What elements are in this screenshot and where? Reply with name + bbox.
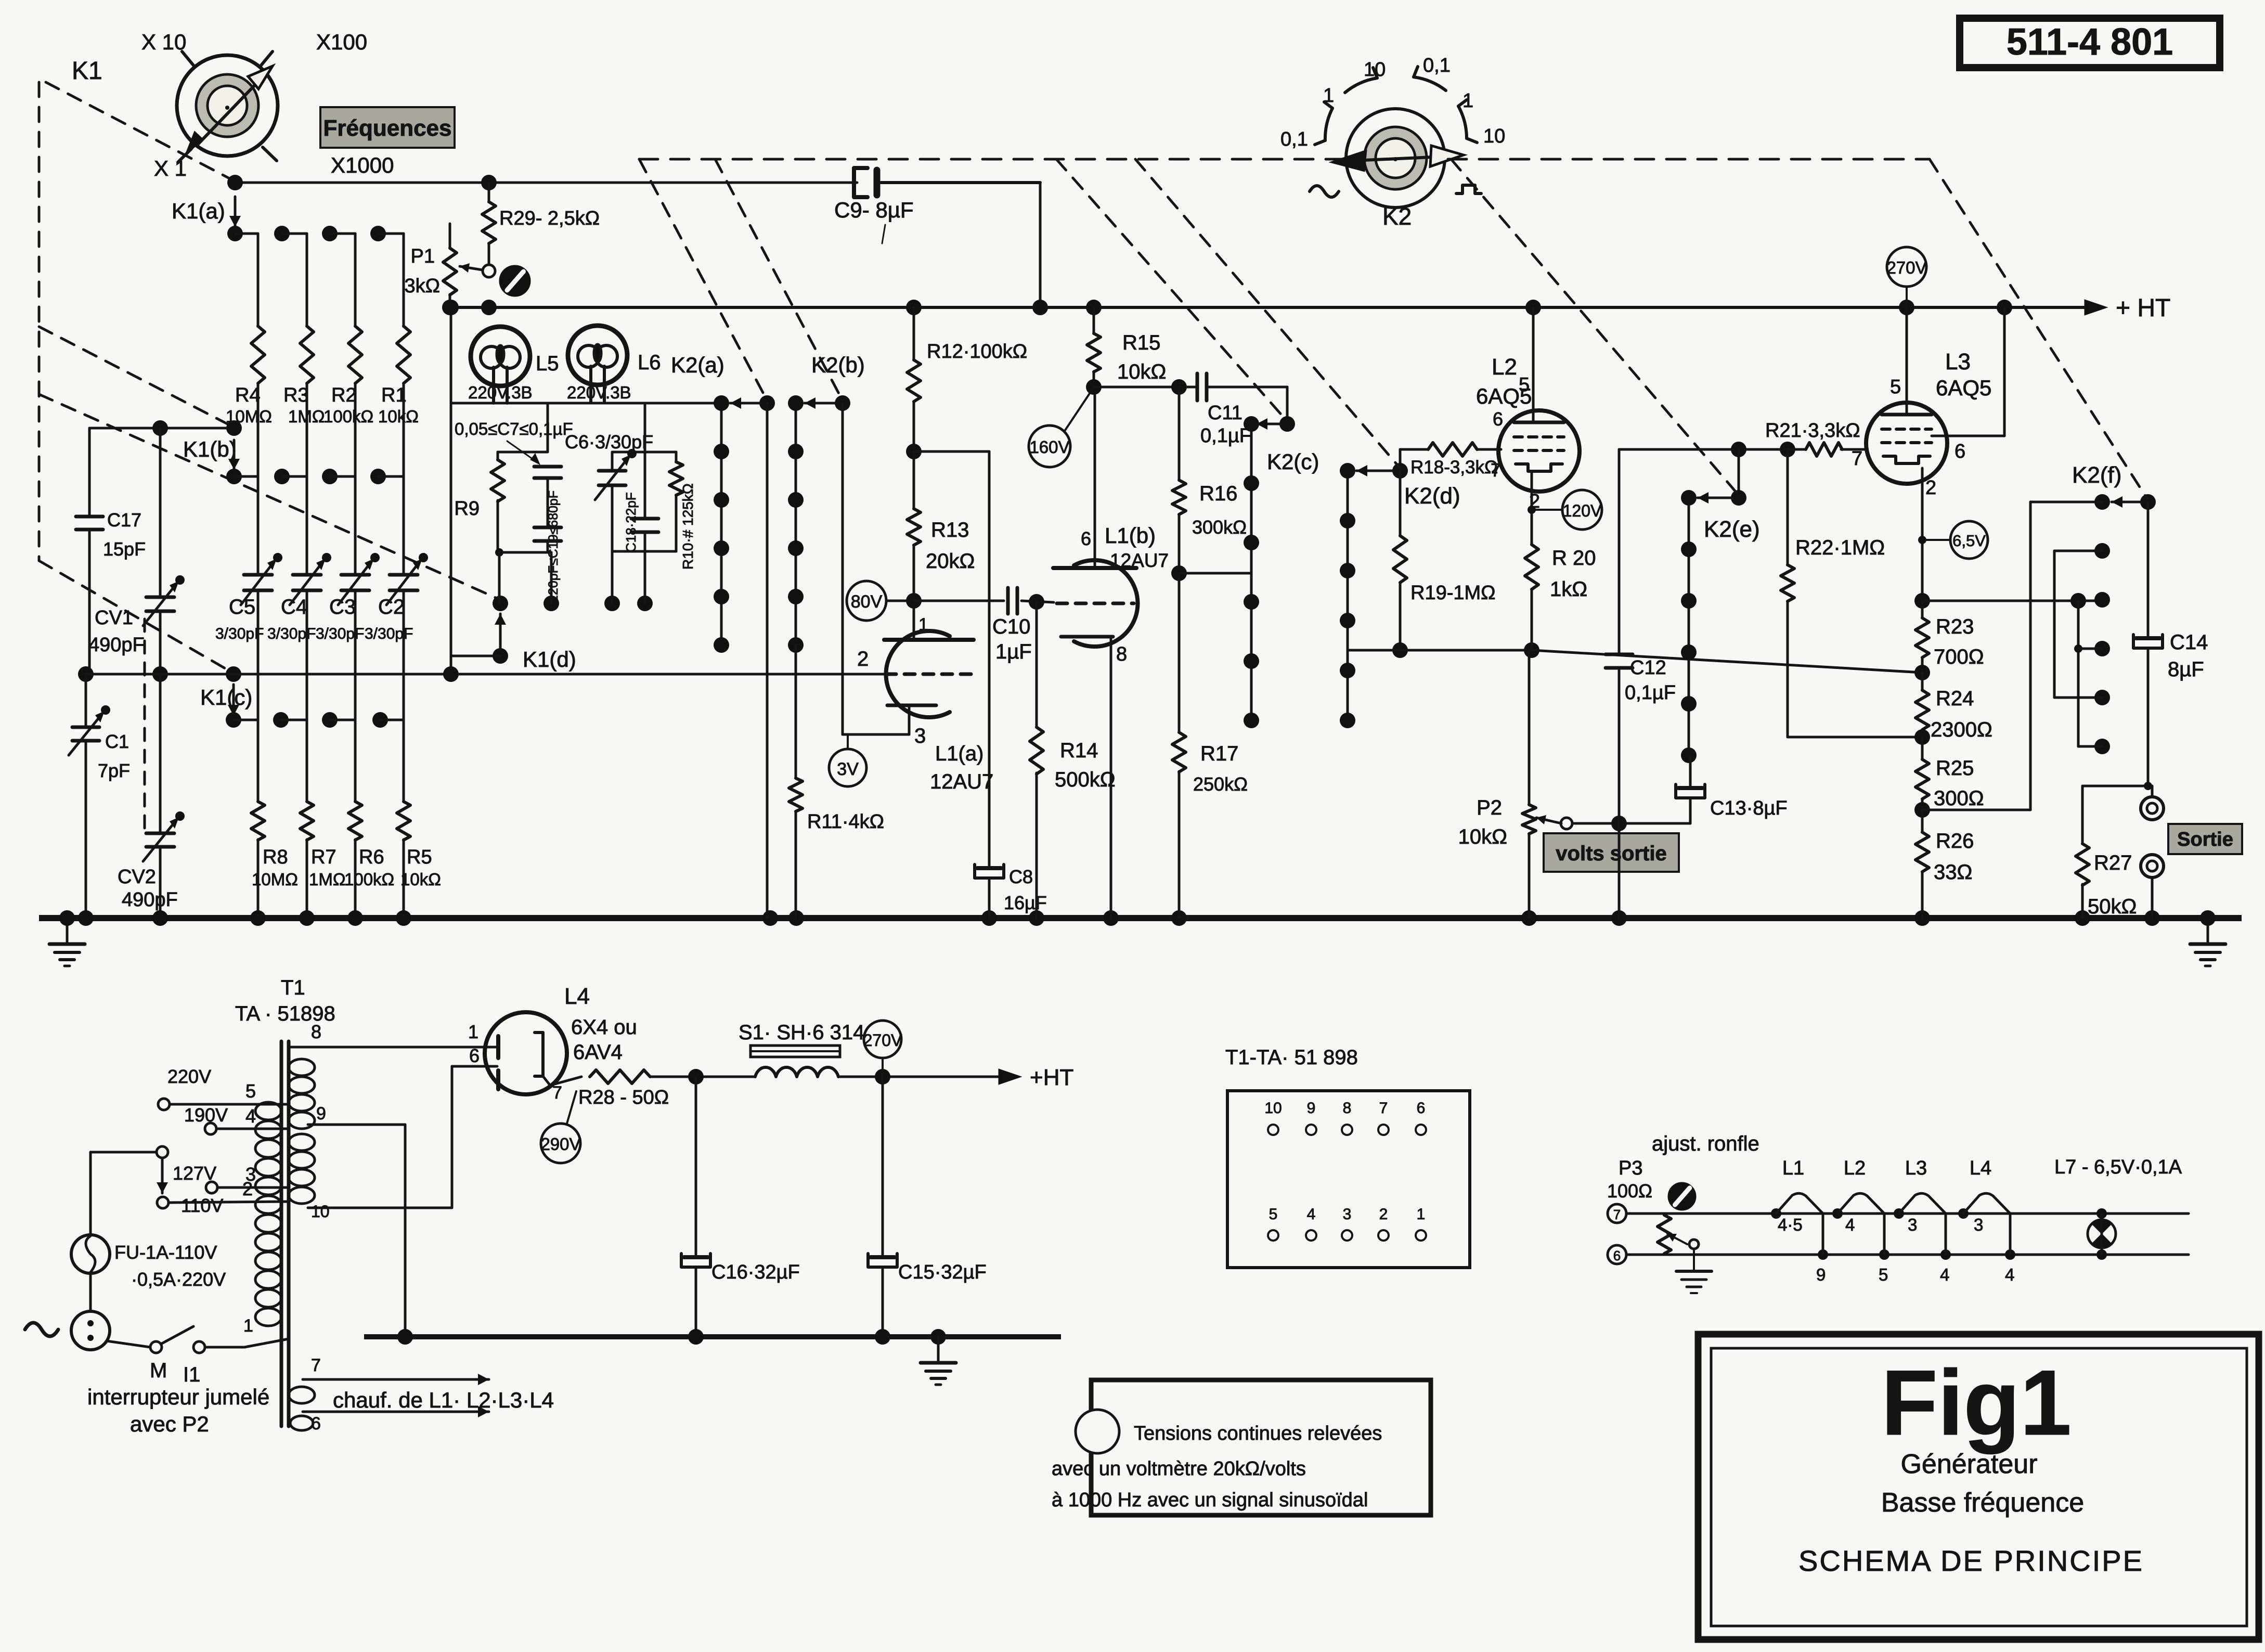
dashed gang to K2(c) [1056,159,1287,421]
svg-text:K2(b): K2(b) [811,353,865,377]
resistor R13 20k [906,444,975,609]
transformer secondary winding [289,1059,315,1204]
svg-text:100Ω: 100Ω [1607,1180,1652,1202]
ground symbol right [2190,910,2225,966]
svg-text:R24: R24 [1936,687,1974,710]
resistor R19 1M [1392,471,1496,658]
wire K1(a) to C9 [235,182,857,184]
svg-text:7: 7 [1379,1100,1388,1117]
svg-text:12AU7: 12AU7 [1110,550,1169,571]
ground symbol P3 [1676,1271,1712,1293]
svg-text:7: 7 [311,1356,321,1375]
wire wiper to output jack [2082,782,2152,790]
svg-text:220V: 220V [167,1066,211,1087]
trimmer capacitor C2 3/30pF [365,476,428,720]
terminal 127V pin 3 [173,1163,289,1193]
resistor R25 300 [1914,737,1984,818]
svg-text:10: 10 [1364,59,1386,81]
svg-text:L2: L2 [1844,1157,1866,1179]
svg-text:L5: L5 [536,352,559,375]
svg-text:L3: L3 [1945,349,1971,375]
svg-text:K2(f): K2(f) [2072,462,2121,488]
wiper K2(b) [805,395,850,734]
svg-text:R18-3,3kΩ: R18-3,3kΩ [1410,457,1498,477]
svg-text:Fig1: Fig1 [1881,1351,2072,1454]
label K1 [72,57,102,85]
trimmer capacitor C4 3/30pF [267,476,331,720]
svg-text:K1(b): K1(b) [183,437,237,461]
svg-text:0,1µF: 0,1µF [1200,425,1251,447]
wiper arrow K1(c) [228,685,239,716]
wire oscillator feedback line [86,673,884,676]
dashed gang to K2(d) [1135,159,1400,468]
svg-text:3: 3 [1343,1206,1352,1223]
svg-text:1: 1 [468,1021,478,1042]
resistor R1 10kΩ [378,234,419,476]
svg-text:2300Ω: 2300Ω [1931,718,1992,741]
svg-text:220pF≤C19≤680pF: 220pF≤C19≤680pF [546,491,561,602]
contact column K2(e) [1681,490,1697,763]
svg-text:K2(c): K2(c) [1267,449,1319,474]
svg-text:290V: 290V [540,1134,580,1154]
svg-text:+HT: +HT [1030,1065,1073,1090]
resistor R20 1k [1525,545,1596,650]
resistor R17 250k [1172,573,1248,918]
svg-text:C4: C4 [281,596,307,618]
transformer T1 core [281,1041,289,1426]
svg-text:2: 2 [857,648,869,670]
svg-text:1MΩ: 1MΩ [288,407,325,426]
rectifier tube L4 6X4/6AV4 [485,984,637,1103]
contact column K2(d) [1340,463,1355,728]
svg-text:R16: R16 [1199,482,1237,505]
svg-text:250kΩ: 250kΩ [1193,773,1248,795]
junction on ground bus x=308 [152,910,168,926]
resistor R14 500k [1029,594,1116,918]
svg-text:R25: R25 [1936,757,1974,780]
dashed gang link CV1-CV2 [144,619,146,832]
svg-text:6AQ5: 6AQ5 [1476,384,1532,408]
output jack bottom [2141,855,2164,918]
wire cathode to K2(f) contact [1914,593,2102,609]
wire C9 down to +HT rail [1039,183,1042,307]
Frequences panel label [320,107,455,148]
wire HV winding top to L4 pin1 [289,1021,486,1047]
label X100 [316,30,367,54]
svg-text:R12·100kΩ: R12·100kΩ [927,341,1027,363]
fuse FU 1A/0,5A [71,1235,226,1290]
output jack top [2141,786,2164,820]
voltage 270V (psu) [863,1021,902,1077]
svg-text:P1: P1 [411,246,435,267]
wiper K2(e) [1698,449,1760,542]
svg-text:220V.3B: 220V.3B [468,383,533,402]
svg-text:R23: R23 [1936,615,1974,638]
contact row K1(b) [226,469,404,484]
wire mains loop [90,1152,157,1235]
junction on ground bus x=4138 [2144,910,2160,926]
svg-text:K1(d): K1(d) [523,647,576,672]
resistor R15 10k [1086,300,1166,395]
svg-text:9: 9 [1307,1100,1316,1117]
svg-text:1: 1 [1323,85,1334,107]
node K1(b) [183,420,242,461]
wiper K1(d) [451,614,576,672]
svg-text:20kΩ: 20kΩ [926,550,975,573]
svg-text:6: 6 [1955,441,1965,462]
svg-text:10kΩ: 10kΩ [400,870,441,889]
+HT arrow (power supply) [999,1065,1073,1090]
svg-text:R10·# 125kΩ: R10·# 125kΩ [680,483,696,570]
transformer primary winding [255,1102,281,1326]
svg-text:avec un voltmètre 20kΩ/volts: avec un voltmètre 20kΩ/volts [1052,1458,1306,1480]
svg-text:80V: 80V [851,592,883,612]
label X1000 [331,153,394,177]
terminal board T1-TA-51898 [1227,1091,1470,1268]
svg-text:8µF: 8µF [2168,658,2204,681]
triode L1(a) 12AU7 [857,601,993,793]
capacitor C9 [834,168,1040,243]
svg-text:270V: 270V [863,1031,902,1050]
svg-text:C2: C2 [378,596,405,618]
contact column K2(b) [788,353,865,653]
svg-text:15pF: 15pF [103,538,146,560]
wiper K2(f) [2112,494,2156,510]
svg-text:C11: C11 [1208,402,1242,424]
svg-text:C14: C14 [2170,631,2208,654]
junction on ground bus x=2267 [1171,910,1187,926]
terminal 220V pin 5 [158,1066,289,1110]
heater winding lead 6 [290,1406,489,1434]
svg-text:L1: L1 [1782,1157,1804,1179]
svg-text:2: 2 [1925,477,1936,499]
svg-text:R26: R26 [1936,830,1974,853]
node K1(a) [172,175,243,223]
capacitor C16 32uF [681,1069,800,1337]
mains selector arrow [157,1146,168,1193]
svg-text:à 1000 Hz avec un signal sinu: à 1000 Hz avec un signal sinusoïdal [1052,1489,1368,1511]
wire R16 bottom to K2(c) [1179,572,1251,575]
svg-text:490pF: 490pF [122,889,178,911]
resistor R16 300k [1171,379,1247,581]
label pin 1 [243,1316,253,1336]
svg-text:9: 9 [1816,1265,1826,1284]
volts sortie panel label [1544,833,1679,872]
junction on ground bus x=1531 [788,910,804,926]
resistor R11 4k [789,645,884,918]
svg-text:8: 8 [311,1021,321,1042]
svg-text:I1: I1 [183,1363,200,1386]
svg-text:K2(d): K2(d) [1404,483,1460,509]
title box 511-4 801 [1960,18,2220,68]
wire junction row to R23 node [1532,650,1922,673]
svg-text:P2: P2 [1477,796,1502,819]
junction on ground bus x=776 [396,910,411,926]
svg-text:X 10: X 10 [141,30,186,54]
svg-text:4: 4 [1307,1206,1316,1223]
svg-text:L1(b): L1(b) [1105,523,1156,548]
wire HV center tap 9 [308,1104,405,1337]
label ajust ronfle [1652,1132,1759,1155]
pentode L3 6AQ5 [1852,307,1991,499]
svg-text:5: 5 [1269,1206,1278,1223]
svg-text:L2: L2 [1492,354,1517,380]
resistor R28 50 [549,1070,696,1108]
svg-text:6: 6 [1081,528,1091,549]
svg-text:7: 7 [1852,448,1862,470]
svg-text:R2: R2 [331,384,357,406]
svg-text:5: 5 [245,1080,256,1102]
wire attenuator tap 3 [2074,601,2102,746]
contact column K2(c) [1244,416,1259,728]
label T1 [235,976,335,1025]
svg-text:3: 3 [1908,1215,1917,1234]
label K2 scale 0,1 left [1280,128,1308,150]
trimmer capacitor C6 3/30pF [565,431,653,551]
capacitor C1 7pF [69,666,130,918]
svg-text:Générateur: Générateur [1900,1449,2037,1479]
svg-text:C10: C10 [992,615,1030,638]
svg-text:8: 8 [1343,1100,1352,1117]
wire lamp cathode rail [451,402,721,405]
wire attenuator tap 1 [1922,502,2102,810]
svg-text:4: 4 [245,1105,256,1127]
wire cathode junction row [1348,642,1539,658]
svg-text:10kΩ: 10kΩ [1458,825,1507,848]
svg-text:7pF: 7pF [98,760,130,781]
svg-text:4: 4 [2005,1265,2014,1284]
voltage 160V [1029,391,1091,467]
resistor R3 1MΩ [283,234,325,476]
capacitor C19 (220-680pF) [534,491,561,602]
square wave symbol [1456,185,1481,193]
svg-text:chauf. de L1· L2·L3·L4: chauf. de L1· L2·L3·L4 [333,1388,554,1412]
svg-text:C5: C5 [229,596,255,618]
svg-text:7: 7 [552,1083,562,1103]
svg-text:C8: C8 [1009,866,1033,887]
svg-text:511-4 801: 511-4 801 [2007,21,2173,63]
svg-text:1MΩ: 1MΩ [309,870,346,889]
resistor R4 10MΩ [226,234,272,476]
svg-text:300Ω: 300Ω [1934,787,1984,810]
triode L1(b) 12AU7 [1053,385,1169,918]
heater winding lead 7 [303,1356,489,1385]
heater hump L3 [1894,1157,1951,1284]
potentiometer P3 [1658,1215,1699,1270]
resistor R8 10MΩ [251,720,298,918]
svg-text:K1(c): K1(c) [200,685,252,709]
trimmer capacitor C5 3/30pF [215,476,282,720]
svg-text:C13·8µF: C13·8µF [1710,797,1788,819]
wire attenuator tap 2 [2054,551,2102,698]
wire +HT rail [450,306,2090,309]
dashed gang line to K1(c) [39,561,231,672]
wire R12 bottom to C8 column [914,450,989,453]
svg-text:T1-TA· 51 898: T1-TA· 51 898 [1225,1046,1358,1069]
heater hump L4 [1958,1157,2015,1284]
label X 1 [154,156,187,180]
svg-text:6AV4: 6AV4 [573,1041,623,1064]
junction on +HT rail x=3666 [1899,300,1914,315]
svg-text:X100: X100 [316,30,367,54]
transformer heater winding [289,1387,315,1403]
svg-text:CV1: CV1 [95,607,133,629]
svg-text:volts sortie: volts sortie [1556,842,1666,865]
voltage 120V [1528,490,1602,530]
junction on ground bus x=2136 [1103,910,1119,926]
screwdriver adjust mark [499,265,530,296]
wiper K2(c) [1257,387,1319,474]
svg-text:1: 1 [1417,1206,1426,1223]
capacitor C7 (0,05-0,1uF) [455,419,573,527]
svg-text:3/30pF: 3/30pF [365,625,413,642]
label P3 [1607,1157,1652,1202]
contact row K1(c) [226,712,404,728]
svg-text:R15: R15 [1122,331,1160,354]
svg-text:6: 6 [1493,408,1503,430]
resistor R2 100kΩ [323,234,373,476]
svg-text:R9: R9 [454,498,480,520]
terminal 190V pin 4 [184,1104,289,1134]
svg-text:6,5V: 6,5V [1952,532,1986,550]
variable capacitor CV2 490pF [118,666,185,918]
svg-text:33Ω: 33Ω [1934,861,1972,884]
lamp L6 220V.3B [567,326,661,402]
svg-text:L4: L4 [564,984,590,1009]
voltage 290V [540,1091,580,1163]
svg-text:K1: K1 [72,57,102,85]
dashed gang line K2 horizontal left [639,158,1343,161]
svg-text:10: 10 [1264,1100,1282,1117]
label chauf de L1 L2 L3 L4 [333,1388,554,1412]
svg-text:R13: R13 [931,519,969,541]
capacitor C15 32uF [868,1077,987,1337]
svg-text:R22·1MΩ: R22·1MΩ [1795,536,1885,559]
contact row K1(a) [227,226,404,241]
dashed gang line to K1(b) [39,327,232,427]
svg-text:8: 8 [1116,643,1127,665]
dashed gang to K2(e) [1451,159,1739,495]
label K2 scale 1 left [1323,85,1334,107]
svg-text:CV2: CV2 [118,866,156,888]
label L7 6,5V 0,1A [2054,1156,2182,1178]
svg-text:R1: R1 [381,384,407,406]
svg-text:5: 5 [1890,376,1901,398]
dashed gang to K2(a) [639,159,767,401]
wire C6 network bottom rail [612,550,676,553]
pilot lamp L7 [2088,1208,2116,1260]
junction on ground bus x=1993 [1029,910,1044,926]
selector switch K1 (Frequences range knob) [177,51,278,162]
svg-text:S1· SH·6 314: S1· SH·6 314 [739,1021,864,1044]
resistor R12 100k [906,300,1027,451]
svg-text:C6·3/30pF: C6·3/30pF [565,431,653,453]
svg-text:160V: 160V [1029,437,1069,457]
resistor R21 3,3k [1765,420,1867,456]
svg-text:T1: T1 [281,976,305,999]
junction on ground bus x=590 [299,910,315,926]
capacitor C8 16uF [975,451,1047,918]
svg-text:C18·22pF: C18·22pF [623,492,639,552]
resistor R22 1M [1781,449,1885,737]
svg-text:50kΩ: 50kΩ [2088,895,2137,918]
resistor R26 33 [1915,810,1974,918]
variable capacitor CV1 490pF [88,428,185,674]
wire C11 line [1094,386,1287,389]
svg-text:R27: R27 [2094,851,2132,874]
dashed gang to K2(b) [715,159,843,401]
svg-text:7: 7 [1613,1207,1621,1222]
svg-text:X1000: X1000 [331,153,394,177]
terminal 110V pin 2 [157,1178,289,1216]
wiper K2(a) [730,395,775,918]
junction on ground bus x=1481 [762,910,778,926]
junction on ground bus x=3696 [1914,910,1930,926]
capacitor C12 0,1uF [1606,449,1676,918]
resistor R23 700 [1914,601,1984,680]
label X 10 [141,30,186,54]
svg-text:R7: R7 [311,846,336,868]
svg-text:R21·3,3kΩ: R21·3,3kΩ [1765,420,1860,442]
svg-text:190V: 190V [184,1104,228,1126]
svg-text:L4: L4 [1970,1157,1991,1179]
wire lamp-box left side [443,300,459,682]
node K1(c) [200,666,252,709]
svg-text:C15·32µF: C15·32µF [898,1261,987,1283]
svg-text:10: 10 [1483,125,1505,147]
svg-text:300kΩ: 300kΩ [1192,517,1247,538]
svg-text:R8: R8 [263,846,288,868]
resistor R5 10kΩ [397,720,441,918]
junction on +HT rail x=3854 [1997,300,2012,315]
filter choke S1 SH-6314 [696,1021,864,1077]
svg-text:3/30pF: 3/30pF [316,625,364,642]
svg-text:R17: R17 [1200,742,1238,765]
wiper arrow K1(b) [228,440,240,470]
contact column K2(a) [671,353,729,653]
svg-text:R3: R3 [283,384,309,406]
svg-text:1µF: 1µF [995,640,1032,663]
svg-text:6X4 ou: 6X4 ou [571,1016,637,1039]
capacitor C10 1uF [914,588,1054,663]
svg-text:100kΩ: 100kΩ [344,870,394,889]
svg-text:4·5: 4·5 [1778,1215,1803,1234]
voltage 6,5V [1918,521,1988,559]
svg-text:R5: R5 [407,846,432,868]
svg-text:0,1: 0,1 [1280,128,1308,150]
svg-text:127V: 127V [173,1163,216,1184]
wire HV winding bottom pin10 to L4 pin6 [308,1045,486,1221]
svg-text:K2(a): K2(a) [671,353,724,377]
svg-text:7: 7 [1491,459,1501,481]
label K2 [1382,203,1412,230]
wiper K2(d) [1356,449,1460,509]
wire C6 branch feed [612,403,676,452]
voltage 270V [1886,247,1926,307]
junction on ground bus x=496 [250,910,266,926]
svg-text:10kΩ: 10kΩ [1117,360,1166,383]
svg-text:5: 5 [1879,1265,1888,1284]
svg-text:R4: R4 [235,384,261,406]
svg-text:700Ω: 700Ω [1934,646,1984,668]
junction on +HT rail x=2000 [1032,300,1048,315]
wire heater line bottom [1626,1254,2189,1256]
svg-text:C16·32µF: C16·32µF [711,1261,800,1283]
wire P2 wiper line [1572,816,1690,831]
dashed gang to K2(f) [1930,159,2147,498]
svg-text:K2(e): K2(e) [1704,517,1760,542]
resistor R7 1MΩ [300,720,346,918]
